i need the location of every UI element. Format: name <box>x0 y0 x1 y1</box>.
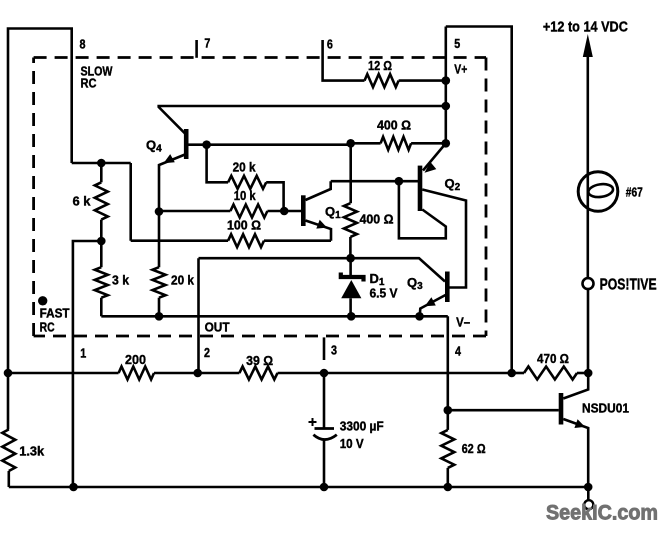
wire bottom common rail <box>9 486 589 489</box>
wire pin 5 V+ column <box>444 27 447 144</box>
resistor 1.3k <box>2 429 15 471</box>
wire 100-ohm left lead <box>131 239 228 242</box>
wire 3k bottom lead <box>100 298 103 317</box>
svg-text:20 k: 20 k <box>233 159 257 174</box>
resistor 200 <box>119 367 154 380</box>
arrow Q2 emitter <box>425 162 437 173</box>
node FAST RC terminal dot <box>38 296 47 305</box>
resistor 39 ohm <box>239 367 277 380</box>
node zener top junction on Q3 base wire <box>346 254 355 263</box>
svg-text:POS!TIVE: POS!TIVE <box>600 276 657 293</box>
resistor 470 ohm <box>524 367 577 380</box>
wire 20k-vert bottom lead <box>158 298 161 317</box>
arrow Q4 emitter <box>164 154 175 163</box>
node pin3 rail junction <box>320 369 329 378</box>
wire 10k right lead <box>267 210 284 213</box>
resistor 10k <box>230 205 267 218</box>
node V+ top-bus junction <box>442 102 451 111</box>
node 6k top junction <box>97 159 106 168</box>
wire 6k bottom lead <box>100 220 103 241</box>
transistor Q3 base bar <box>445 272 450 303</box>
resistor 3k <box>95 267 108 298</box>
wire main output rail segment A <box>8 372 119 375</box>
arrow Q1 emitter <box>316 220 327 229</box>
wire capacitor bottom lead <box>323 440 326 488</box>
wire 100-ohm right lead <box>264 239 331 242</box>
wire 10k left lead <box>159 210 230 213</box>
arrow Q3 emitter <box>425 297 436 306</box>
node pin1 bottom rail junction <box>69 483 78 492</box>
node D1 bottom junction <box>347 312 356 321</box>
wire capacitor top lead <box>323 373 326 429</box>
wire 20k-horiz left lead from Q4 base node <box>207 145 229 183</box>
node 62-ohm bottom rail junction <box>444 483 453 492</box>
wire pin 2 OUT column <box>197 258 200 373</box>
wire 400ohm-vert top lead from Q4 base node <box>349 143 352 203</box>
wire main output rail segment C <box>278 372 512 375</box>
svg-text:#67: #67 <box>626 184 643 199</box>
transistor Q2 base bar <box>418 166 423 211</box>
transistor Q4 base bar <box>184 129 189 159</box>
svg-text:V–: V– <box>456 314 470 329</box>
svg-text:12 Ω: 12 Ω <box>368 58 392 73</box>
svg-text:1.3k: 1.3k <box>19 443 45 458</box>
node 20k-vert bottom junction <box>155 312 164 321</box>
arrow NSDU01 emitter <box>574 419 585 428</box>
wire pin 6 down and 12-ohm left lead <box>323 40 365 81</box>
wire Q1 base <box>284 210 301 213</box>
node Q4 base junction to 20k <box>202 140 211 149</box>
svg-text:+12 to 14 VDC: +12 to 14 VDC <box>543 20 628 36</box>
svg-text:3 k: 3 k <box>112 273 130 288</box>
svg-text:RC: RC <box>40 321 55 335</box>
wire Q4 emitter diagonal <box>159 155 185 268</box>
node Q3 emitter junction <box>415 312 424 321</box>
resistor 12 ohm <box>365 74 399 87</box>
wire NSDU01 collector <box>563 373 588 399</box>
wire Q2 collector-base loop <box>399 181 446 238</box>
wire pin8 outer loop from left rail up and into pin 8 <box>8 29 72 375</box>
node rail left 1.3k junction <box>4 369 13 378</box>
diode D1 zener 6.5V <box>341 273 364 282</box>
lamp #67 filament ellipse <box>588 183 614 199</box>
wire pin 7 stub <box>195 40 198 58</box>
node pin2 rail junction <box>193 369 202 378</box>
svg-text:3300 µF: 3300 µF <box>340 419 384 434</box>
wire NSDU01 base <box>448 409 559 412</box>
svg-text:400 Ω: 400 Ω <box>360 212 394 227</box>
node NSDU01 emitter rail junction <box>584 483 593 492</box>
wire pin 5 outer loop over and down right side <box>446 27 512 374</box>
resistor 20k vertical <box>153 267 166 298</box>
wire 400ohm-horiz right lead <box>411 142 446 145</box>
wire Q1 collector diagonal up to Q2 base rail <box>306 181 331 200</box>
wire supply column to POSITIVE terminal <box>586 50 589 278</box>
svg-text:NSDU01: NSDU01 <box>582 401 629 416</box>
wire 6k top lead <box>100 163 103 182</box>
wire 400ohm-horiz left lead <box>351 142 381 145</box>
wire 1.3k top lead <box>7 373 10 429</box>
svg-text:5: 5 <box>454 36 460 51</box>
svg-text:400 Ω: 400 Ω <box>377 117 411 132</box>
svg-text:6.5 V: 6.5 V <box>370 286 398 301</box>
wire pin 4 column from V- corner down to NSDU01 base node <box>446 316 449 410</box>
svg-text:3: 3 <box>331 344 337 358</box>
wire pin8 internal: right to 6k top and over to 100-ohm branch <box>72 163 131 241</box>
node 400ohm-vert top junction <box>346 139 355 148</box>
node Q2 base junction <box>395 177 404 186</box>
svg-text:SeekIC.com: SeekIC.com <box>546 502 658 525</box>
svg-text:4: 4 <box>455 345 461 359</box>
resistor 6k <box>95 182 108 219</box>
svg-text:470 Ω: 470 Ω <box>537 351 569 366</box>
svg-text:200: 200 <box>125 352 146 367</box>
svg-text:V+: V+ <box>454 62 467 77</box>
svg-text:10 V: 10 V <box>340 436 364 451</box>
node Q1 base junction <box>280 207 289 216</box>
svg-text:7: 7 <box>204 36 210 51</box>
svg-text:20 k: 20 k <box>171 273 195 288</box>
wire Q2 emitter from V+ node <box>423 143 446 170</box>
terminal POSITIVE open circle <box>583 278 594 289</box>
wire main output rail segment B <box>154 372 239 375</box>
svg-text:FAST: FAST <box>40 307 70 321</box>
svg-text:OUT: OUT <box>205 320 230 335</box>
node NSDU01 base junction <box>444 406 453 415</box>
node 10k left junction <box>155 207 164 216</box>
svg-text:RC: RC <box>81 76 98 91</box>
transistor Q1 base bar <box>301 195 306 226</box>
wire pin 3 stub <box>323 337 326 360</box>
resistor 100 ohm <box>228 234 264 247</box>
wire Q1 emitter diagonal down to 100-ohm node <box>306 221 332 241</box>
wire Q2 base rail <box>331 180 418 183</box>
svg-text:6: 6 <box>327 37 333 52</box>
svg-text:6 k: 6 k <box>73 194 92 209</box>
capacitor plus sign <box>309 418 317 426</box>
wire Q4 base <box>189 143 351 146</box>
capacitor C1 3300uF 10V plates <box>315 427 335 430</box>
node 6k bottom junction <box>97 237 106 246</box>
wire 6k-bottom to pin 1 column down to bottom rail <box>73 241 101 487</box>
wire 470-ohm left lead <box>512 372 524 375</box>
resistor 400 ohm horizontal <box>381 137 412 150</box>
transistor NSDU01 base bar <box>559 393 564 425</box>
arrow +12V supply head <box>583 34 593 57</box>
lamp #67 bulb circle <box>578 172 618 212</box>
wire 62-ohm bottom lead <box>446 468 449 487</box>
wire 62-ohm top lead <box>446 410 449 430</box>
svg-text:100 Ω: 100 Ω <box>227 217 261 232</box>
node V+ Q2 emitter junction <box>442 139 451 148</box>
svg-text:8: 8 <box>80 37 86 52</box>
wire internal bottom bus (OUT/V- row) <box>101 315 448 318</box>
wire Q2 collector diagonal down to Q3 collector <box>422 190 466 288</box>
svg-text:39 Ω: 39 Ω <box>246 353 273 368</box>
wire 12-ohm right lead <box>399 79 446 82</box>
node 470-ohm right junction <box>584 369 593 378</box>
svg-text:62 Ω: 62 Ω <box>462 441 486 456</box>
wire 1.3k bottom lead <box>8 471 11 487</box>
resistor 62 ohm <box>441 430 454 468</box>
wire common terminal drop <box>587 487 590 500</box>
wire NSDU01 emitter <box>563 419 588 487</box>
node V+ 12-ohm junction <box>442 76 451 85</box>
svg-text:10 k: 10 k <box>234 188 257 203</box>
wire 20k-horiz right lead down to Q1 base node <box>266 182 283 211</box>
wire Q3 emitter <box>420 295 446 316</box>
svg-text:1: 1 <box>80 346 86 360</box>
wire 3k top lead <box>100 241 103 267</box>
terminal COMMON open circle <box>584 500 593 509</box>
resistor 20k horizontal <box>228 176 266 189</box>
svg-text:2: 2 <box>204 346 210 360</box>
wire 470-ohm right lead <box>577 372 588 375</box>
wire POSITIVE terminal to 470-ohm node <box>587 289 590 373</box>
IC package dashed boundary box <box>34 58 486 337</box>
wire Q4 collector diagonal and top bus to V+ node <box>159 106 446 134</box>
resistor 400 ohm vertical <box>344 203 357 237</box>
node capacitor bottom rail junction <box>320 483 329 492</box>
wire Q3 base from OUT column <box>199 258 446 281</box>
wire D1 bottom lead <box>349 298 352 316</box>
node 470-ohm left junction <box>507 369 516 378</box>
wire 400ohm-vert bottom lead <box>349 237 352 258</box>
wire D1 top lead <box>349 258 352 277</box>
